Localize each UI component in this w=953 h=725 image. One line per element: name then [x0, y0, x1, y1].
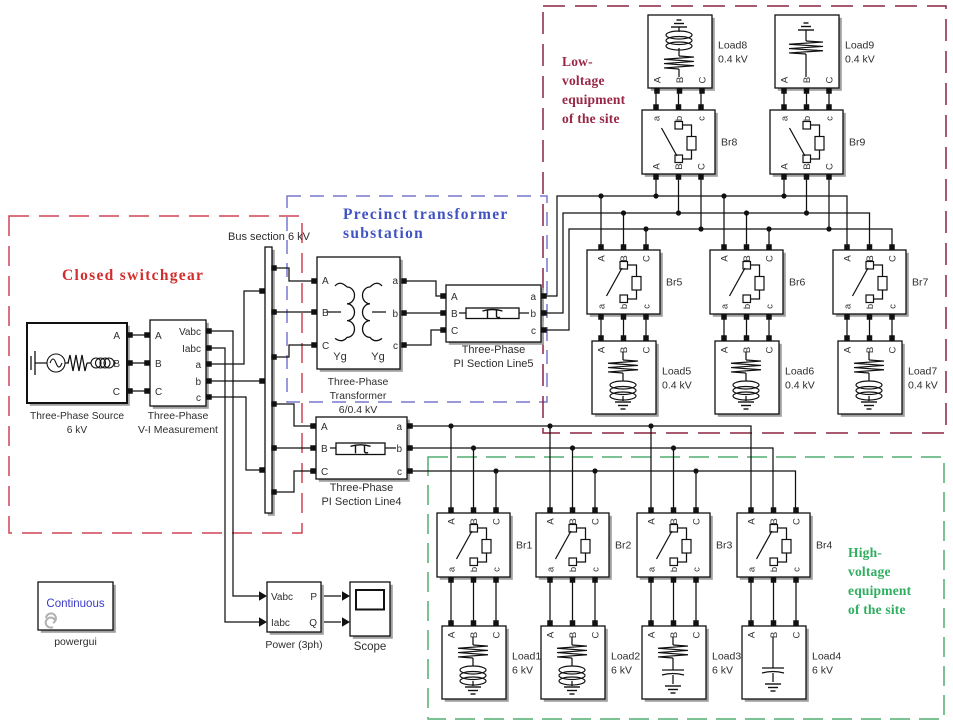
svg-text:Br6: Br6: [789, 277, 806, 289]
svg-text:Yg: Yg: [371, 351, 384, 363]
svg-text:B: B: [769, 518, 780, 524]
svg-text:b: b: [619, 304, 630, 309]
svg-text:C: C: [322, 341, 329, 352]
svg-text:PI Section Line5: PI Section Line5: [453, 358, 533, 370]
svg-text:Load7: Load7: [908, 366, 937, 378]
svg-text:V-I Measurement: V-I Measurement: [138, 424, 218, 436]
svg-text:b: b: [568, 567, 579, 572]
svg-text:A: A: [843, 346, 854, 353]
svg-text:Load9: Load9: [845, 40, 874, 52]
svg-text:Br4: Br4: [816, 540, 833, 552]
svg-text:c: c: [692, 567, 703, 572]
svg-text:b: b: [530, 309, 536, 320]
svg-text:a: a: [720, 303, 731, 309]
svg-text:A: A: [597, 346, 608, 353]
svg-text:Closed switchgear: Closed switchgear: [62, 267, 204, 284]
svg-text:c: c: [765, 304, 776, 309]
svg-text:voltage: voltage: [562, 73, 605, 88]
svg-text:6 kV: 6 kV: [512, 665, 533, 677]
svg-text:B: B: [469, 518, 480, 524]
svg-text:a: a: [780, 115, 791, 121]
svg-text:a: a: [652, 115, 663, 121]
svg-text:A: A: [747, 518, 758, 525]
svg-text:B: B: [802, 163, 813, 169]
svg-text:Br9: Br9: [849, 137, 866, 149]
svg-text:a: a: [843, 303, 854, 309]
svg-text:a: a: [392, 276, 398, 287]
svg-text:b: b: [802, 116, 813, 121]
svg-text:a: a: [597, 303, 608, 309]
svg-text:0.4 kV: 0.4 kV: [845, 54, 875, 66]
svg-text:B: B: [568, 518, 579, 524]
svg-text:C: C: [113, 387, 120, 398]
svg-text:Load2: Load2: [611, 651, 640, 663]
svg-text:A: A: [653, 76, 664, 83]
svg-text:B: B: [802, 77, 813, 83]
svg-text:c: c: [697, 116, 708, 121]
svg-text:a: a: [530, 292, 536, 303]
svg-text:A: A: [546, 518, 557, 525]
svg-text:6/0.4 kV: 6/0.4 kV: [339, 404, 378, 416]
svg-text:A: A: [447, 518, 458, 525]
svg-text:B: B: [742, 255, 753, 261]
svg-text:Iabc: Iabc: [182, 344, 201, 355]
svg-text:Precinct transformer: Precinct transformer: [343, 206, 509, 223]
svg-text:C: C: [697, 163, 708, 170]
svg-text:A: A: [546, 631, 557, 638]
svg-text:Bus section 6 kV: Bus section 6 kV: [228, 231, 311, 243]
svg-text:equipment: equipment: [848, 583, 912, 598]
svg-text:B: B: [113, 359, 120, 370]
svg-text:B: B: [155, 359, 162, 370]
svg-text:C: C: [888, 346, 899, 353]
svg-text:b: b: [195, 377, 201, 388]
svg-text:Br7: Br7: [912, 277, 929, 289]
svg-text:C: C: [825, 163, 836, 170]
svg-text:Continuous: Continuous: [46, 598, 104, 610]
svg-text:Br1: Br1: [516, 540, 533, 552]
svg-text:Three-Phase: Three-Phase: [148, 410, 209, 422]
svg-text:B: B: [469, 632, 480, 638]
svg-text:Three-Phase: Three-Phase: [328, 376, 389, 388]
svg-text:6 kV: 6 kV: [67, 425, 88, 436]
svg-text:C: C: [888, 255, 899, 262]
svg-text:A: A: [321, 422, 328, 433]
svg-text:Three-Phase: Three-Phase: [330, 482, 394, 494]
svg-text:PI Section Line4: PI Section Line4: [321, 496, 401, 508]
svg-text:Br8: Br8: [721, 137, 738, 149]
svg-text:A: A: [652, 163, 663, 170]
svg-text:C: C: [492, 518, 503, 525]
svg-text:b: b: [469, 567, 480, 572]
svg-text:B: B: [669, 632, 680, 638]
svg-text:B: B: [568, 632, 579, 638]
svg-text:c: c: [642, 304, 653, 309]
svg-text:b: b: [674, 116, 685, 121]
svg-text:Iabc: Iabc: [271, 618, 290, 629]
svg-text:Load4: Load4: [812, 651, 841, 663]
svg-text:Load8: Load8: [718, 40, 747, 52]
svg-text:powergui: powergui: [54, 636, 97, 648]
svg-text:Scope: Scope: [354, 641, 387, 653]
svg-text:Load5: Load5: [662, 366, 691, 378]
svg-text:C: C: [765, 346, 776, 353]
svg-text:B: B: [675, 77, 686, 83]
svg-text:b: b: [742, 304, 753, 309]
svg-text:A: A: [780, 163, 791, 170]
svg-text:A: A: [597, 255, 608, 262]
svg-text:a: a: [546, 566, 557, 572]
svg-text:Three-Phase: Three-Phase: [462, 344, 526, 356]
svg-text:Br3: Br3: [716, 540, 733, 552]
svg-text:A: A: [720, 346, 731, 353]
svg-text:a: a: [195, 360, 201, 371]
svg-text:equipment: equipment: [562, 92, 626, 107]
svg-text:b: b: [769, 567, 780, 572]
svg-text:A: A: [843, 255, 854, 262]
svg-text:b: b: [865, 304, 876, 309]
svg-text:A: A: [780, 76, 791, 83]
svg-text:c: c: [531, 326, 536, 337]
svg-text:C: C: [642, 346, 653, 353]
svg-text:6 kV: 6 kV: [812, 665, 833, 677]
svg-text:6 kV: 6 kV: [712, 665, 733, 677]
svg-text:b: b: [396, 444, 402, 455]
svg-text:High-: High-: [848, 545, 882, 560]
svg-text:c: c: [397, 467, 402, 478]
svg-text:A: A: [155, 331, 162, 342]
svg-text:C: C: [155, 387, 162, 398]
svg-text:A: A: [720, 255, 731, 262]
svg-text:C: C: [591, 518, 602, 525]
svg-text:A: A: [747, 631, 758, 638]
svg-text:C: C: [825, 76, 836, 83]
svg-text:B: B: [619, 255, 630, 261]
svg-text:B: B: [669, 518, 680, 524]
svg-text:a: a: [447, 566, 458, 572]
svg-text:C: C: [451, 326, 458, 337]
svg-text:B: B: [322, 308, 329, 319]
svg-text:0.4 kV: 0.4 kV: [785, 380, 815, 392]
svg-text:A: A: [447, 631, 458, 638]
svg-text:B: B: [769, 632, 780, 638]
svg-text:Load3: Load3: [712, 651, 741, 663]
svg-text:c: c: [591, 567, 602, 572]
svg-text:Q: Q: [309, 618, 317, 629]
svg-text:0.4 kV: 0.4 kV: [908, 380, 938, 392]
svg-text:C: C: [492, 631, 503, 638]
svg-text:B: B: [674, 163, 685, 169]
svg-text:6 kV: 6 kV: [611, 665, 632, 677]
svg-text:B: B: [451, 309, 458, 320]
svg-text:a: a: [747, 566, 758, 572]
svg-text:C: C: [792, 518, 803, 525]
svg-text:C: C: [591, 631, 602, 638]
svg-text:voltage: voltage: [848, 564, 891, 579]
svg-text:C: C: [692, 518, 703, 525]
svg-text:b: b: [392, 309, 398, 320]
svg-text:A: A: [647, 518, 658, 525]
svg-text:A: A: [113, 331, 120, 342]
svg-text:of the site: of the site: [562, 111, 620, 126]
svg-text:Power (3ph): Power (3ph): [265, 639, 322, 651]
svg-text:of the site: of the site: [848, 602, 906, 617]
svg-text:substation: substation: [343, 225, 424, 242]
svg-text:Vabc: Vabc: [271, 592, 293, 603]
svg-text:c: c: [825, 116, 836, 121]
svg-text:Load1: Load1: [512, 651, 541, 663]
svg-text:B: B: [619, 347, 630, 353]
svg-text:Low-: Low-: [562, 54, 593, 69]
svg-text:0.4 kV: 0.4 kV: [718, 54, 748, 66]
svg-text:a: a: [396, 422, 402, 433]
svg-text:c: c: [888, 304, 899, 309]
svg-text:Transformer: Transformer: [330, 390, 387, 402]
svg-text:b: b: [669, 567, 680, 572]
svg-text:A: A: [451, 292, 458, 303]
svg-text:Br5: Br5: [666, 277, 683, 289]
svg-text:Load6: Load6: [785, 366, 814, 378]
svg-text:c: c: [792, 567, 803, 572]
svg-text:0.4 kV: 0.4 kV: [662, 380, 692, 392]
svg-text:a: a: [647, 566, 658, 572]
svg-text:Yg: Yg: [333, 351, 346, 363]
svg-text:B: B: [865, 255, 876, 261]
svg-text:Br2: Br2: [615, 540, 632, 552]
svg-text:Vabc: Vabc: [179, 327, 201, 338]
svg-text:A: A: [647, 631, 658, 638]
svg-text:C: C: [642, 255, 653, 262]
svg-text:c: c: [492, 567, 503, 572]
svg-text:C: C: [765, 255, 776, 262]
svg-text:B: B: [865, 347, 876, 353]
svg-text:C: C: [698, 76, 709, 83]
svg-text:A: A: [322, 276, 329, 287]
svg-text:Three-Phase Source: Three-Phase Source: [30, 411, 124, 422]
svg-text:C: C: [792, 631, 803, 638]
svg-text:B: B: [742, 347, 753, 353]
svg-text:c: c: [393, 341, 398, 352]
svg-text:C: C: [692, 631, 703, 638]
svg-text:P: P: [310, 592, 317, 603]
svg-text:c: c: [196, 393, 201, 404]
svg-text:C: C: [321, 467, 328, 478]
svg-text:B: B: [321, 444, 328, 455]
